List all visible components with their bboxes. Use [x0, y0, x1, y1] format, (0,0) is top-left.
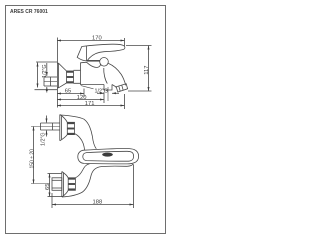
lower swan tube inner: [76, 164, 90, 178]
lever indicator dot: [102, 153, 113, 157]
body top dip: [81, 62, 101, 67]
dim 117 line: [148, 46, 150, 92]
lower pipe stub: [52, 178, 62, 191]
wall pipe middle line: [44, 81, 57, 83]
dim 65 ext: [83, 89, 85, 98]
escutcheon bell side view: [57, 63, 67, 88]
left ext top: [36, 61, 57, 63]
svg-text:117: 117: [144, 66, 150, 75]
wall line: [56, 38, 58, 108]
upper 1/2G down leader: [46, 116, 48, 123]
body spout junction line: [104, 68, 108, 84]
lever plan inner: [83, 151, 134, 161]
body tube: [74, 70, 81, 83]
svg-text:65: 65: [65, 89, 71, 95]
wall pipe bottom line: [44, 85, 57, 87]
svg-text:65: 65: [45, 184, 51, 190]
outlet dim arrows 1/2G: [97, 92, 104, 94]
left dim line: [37, 63, 39, 88]
wall pipe top line: [44, 76, 57, 78]
upper swan tube outer: [60, 115, 96, 149]
dim 65 line: [57, 93, 84, 95]
svg-text:188: 188: [93, 200, 103, 206]
lower swan tube outer + body underside: [62, 164, 133, 197]
svg-text:171: 171: [85, 101, 95, 107]
spout aerator: [116, 84, 127, 92]
upper pipe top line: [41, 122, 60, 124]
dim 188 line: [52, 204, 134, 206]
lower nut ladder: [68, 178, 75, 191]
upper 1/2G up leader: [46, 131, 48, 137]
shower outlet box: [104, 85, 112, 91]
dim 150 bottom ext: [31, 183, 50, 185]
wall pipe end cap: [43, 77, 45, 86]
lever inner line: [86, 46, 88, 61]
dim 171 line: [57, 105, 125, 107]
lever handle: [77, 44, 125, 61]
upper pipe bottom line: [41, 129, 60, 131]
dim 65b line: [49, 174, 51, 197]
dim 120 ext: [103, 92, 105, 103]
spout inner edge: [112, 85, 117, 88]
dim 65b top ext: [48, 173, 63, 175]
svg-text:170: 170: [92, 36, 102, 42]
dim 171 ext: [124, 94, 126, 109]
svg-text:1/2″G: 1/2″G: [41, 132, 47, 146]
wall pipe step: [50, 77, 52, 86]
svg-text:ARES CR 76001: ARES CR 76001: [10, 9, 48, 15]
upper pipe step: [41, 123, 53, 130]
upper swan tube inner: [75, 134, 85, 151]
union nut ladder: [67, 71, 74, 83]
outlet centerline: [107, 87, 109, 101]
svg-text:150 ± 20: 150 ± 20: [29, 149, 35, 169]
svg-text:1/2″G: 1/2″G: [95, 89, 109, 95]
dim 117 top ext: [126, 45, 152, 47]
ext line lever tip: [124, 38, 126, 46]
left ext bottom: [35, 89, 58, 91]
dim 65b bottom ext: [48, 196, 63, 198]
lever plan outer: [78, 148, 139, 163]
dim 120 line: [57, 99, 104, 101]
leader 1/2G down arrow: [46, 63, 48, 76]
border frame: [6, 6, 166, 234]
leader diagonal under body: [81, 86, 94, 89]
leader 1/2G up arrow: [46, 87, 48, 93]
body outline: [81, 63, 105, 85]
dim 188 left ext: [51, 193, 53, 208]
upper nut ladder: [67, 122, 74, 134]
lower bell: [62, 172, 68, 198]
spout outline: [108, 63, 126, 85]
dim 188 right ext: [133, 165, 135, 209]
upper bell: [60, 115, 68, 141]
upper pipe centerline ext: [31, 126, 60, 128]
lever underside thick line: [87, 60, 100, 62]
dim 170 line: [57, 40, 125, 42]
dim 117 bottom ext: [128, 90, 152, 92]
cartridge dome circle: [100, 58, 109, 67]
dim 150 line: [33, 127, 35, 184]
